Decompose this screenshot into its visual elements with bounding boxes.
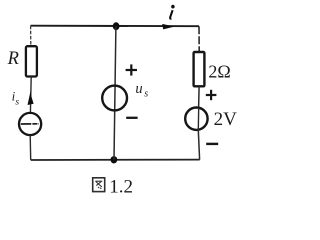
voltage source us circle <box>102 86 127 111</box>
node junction dot top <box>113 22 120 30</box>
current arrow i on top wire <box>162 24 174 30</box>
resistor 2 ohm <box>194 52 205 86</box>
svg-text:s: s <box>144 88 148 99</box>
polarity plus of 2V <box>206 90 217 100</box>
resistor R <box>26 46 37 76</box>
wire left vertical middle <box>29 77 32 114</box>
label us <box>135 81 148 100</box>
caption text 1.2 <box>109 177 133 198</box>
label 2V <box>214 109 238 130</box>
label is <box>12 89 20 108</box>
wire right vertical lower <box>198 130 199 160</box>
svg-text:s: s <box>15 97 19 107</box>
node junction dot bottom <box>111 156 118 163</box>
wire right vertical middle <box>198 86 201 107</box>
svg-text:u: u <box>135 81 142 97</box>
wire top horizontal <box>31 25 200 28</box>
current source is circle <box>19 113 41 135</box>
svg-text:2Ω: 2Ω <box>208 61 230 81</box>
polarity plus of us <box>126 64 137 75</box>
label R <box>7 49 19 69</box>
label i <box>170 5 175 19</box>
arrow of current source is (pointing up) <box>28 91 34 105</box>
polarity minus of us <box>126 117 137 119</box>
svg-text:R: R <box>7 49 19 69</box>
polarity minus of 2V <box>206 143 218 145</box>
wire right vertical upper <box>198 26 200 52</box>
label 2 ohm <box>208 61 230 81</box>
wire left vertical upper <box>30 26 32 46</box>
voltage source 2V circle <box>185 108 207 131</box>
wire left vertical lower <box>29 135 32 160</box>
wire middle vertical <box>114 26 116 160</box>
caption hanzi tu (figure) drawn glyph <box>93 178 105 192</box>
svg-text:2V: 2V <box>214 109 238 130</box>
wire bottom horizontal <box>31 159 200 161</box>
svg-text:1.2: 1.2 <box>109 177 133 198</box>
